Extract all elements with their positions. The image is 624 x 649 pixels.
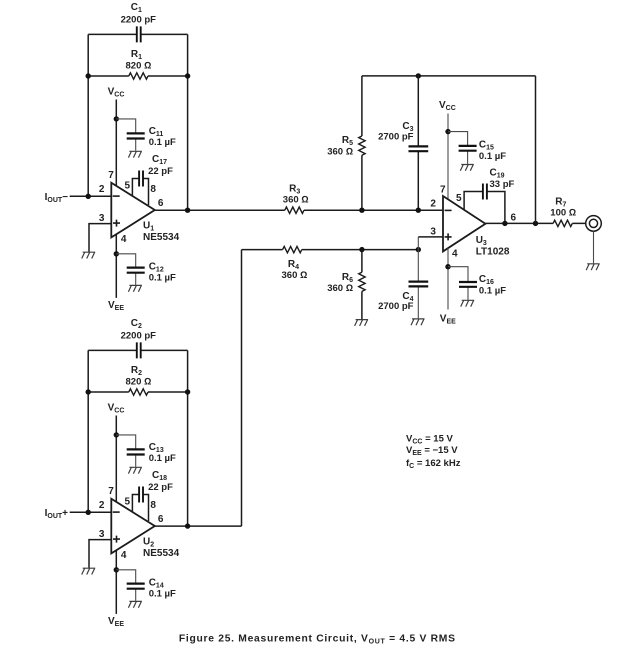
output connector inner ring: [589, 219, 597, 227]
wire: VCC stub to U2 pin 7: [115, 416, 117, 502]
svg-text:22 pF: 22 pF: [148, 166, 173, 177]
junction dot U1 output: [185, 208, 190, 213]
wire: U3 feedback top rail: [362, 75, 536, 77]
wire: C4 branch verticals: [417, 237, 419, 318]
svg-text:0.1 µF: 0.1 µF: [479, 285, 506, 296]
wire: U2 pin 4 / VEE stub: [115, 550, 117, 614]
minus sign U1: [113, 195, 120, 197]
svg-text:360 Ω: 360 Ω: [327, 146, 353, 157]
svg-text:0.1 µF: 0.1 µF: [149, 588, 176, 599]
svg-text:2700 pF: 2700 pF: [378, 132, 414, 143]
junction dot C19 to output: [502, 221, 507, 226]
capacitor C19: [483, 184, 487, 200]
junction dot VCC/C11: [114, 116, 119, 121]
svg-text:4: 4: [121, 550, 127, 561]
svg-text:2700 pF: 2700 pF: [378, 301, 414, 312]
wire: R1 row: [88, 75, 187, 77]
wire: R2 row: [88, 391, 187, 393]
wire: C3 branch verticals: [417, 76, 419, 210]
svg-text:6: 6: [511, 212, 517, 223]
ground U1 pin 3: [82, 252, 96, 258]
svg-text:0.1 µF: 0.1 µF: [149, 453, 176, 464]
ground U2 pin 3: [82, 568, 96, 574]
svg-text:3: 3: [99, 213, 105, 224]
wire: U1 pin 3 to ground: [89, 224, 111, 252]
svg-text:3: 3: [430, 227, 436, 238]
svg-text:2: 2: [430, 199, 436, 210]
plus sign U2: [113, 536, 120, 543]
svg-text:7: 7: [440, 184, 446, 195]
svg-text:360 Ω: 360 Ω: [327, 283, 353, 294]
junction dot input/feedback U2: [86, 510, 91, 515]
svg-text:8: 8: [150, 500, 156, 511]
svg-text:100 Ω: 100 Ω: [550, 208, 576, 219]
ground below C15: [460, 165, 474, 171]
wire: VCC stub to U3 pin 7: [447, 114, 449, 200]
ground below C16: [461, 300, 475, 306]
ground below connector: [586, 264, 600, 270]
wire: U1 output row with R3: [155, 209, 443, 211]
wire: C11 branch: [116, 119, 135, 151]
wire: C16 branch: [448, 267, 468, 300]
wire: IOUT+ input to pin 2: [70, 511, 112, 513]
svg-text:6: 6: [158, 198, 164, 209]
junction dot feedback to output: [533, 221, 538, 226]
junction dot input/feedback: [86, 194, 91, 199]
svg-text:5: 5: [125, 496, 131, 507]
op-amp U3 triangle: [443, 196, 485, 251]
wire: R4 row: [242, 249, 419, 251]
junction dot left R1: [86, 73, 91, 78]
wire: connector ground stem: [593, 231, 595, 263]
capacitor C3: [409, 146, 429, 151]
svg-text:8: 8: [150, 184, 156, 195]
wire: U2 pin5-pin8 bracket: [132, 495, 148, 522]
svg-text:5: 5: [125, 180, 131, 191]
resistor R7: [553, 220, 572, 226]
junction dot pin4/C16: [445, 264, 450, 269]
svg-text:2200 pF: 2200 pF: [121, 14, 157, 25]
junction dot VCC/C13: [114, 432, 119, 437]
junction dot VCC/C15: [445, 129, 450, 134]
wire: C15 branch: [448, 132, 468, 164]
resistor R3: [285, 207, 304, 213]
ground below C4: [411, 319, 425, 325]
wire: U2 pin 3 to ground: [89, 540, 111, 568]
svg-text:LT1028: LT1028: [476, 247, 510, 258]
svg-text:3: 3: [99, 529, 105, 540]
junction dot R5 bottom: [359, 208, 364, 213]
ground below C12: [128, 285, 142, 291]
svg-text:NE5534: NE5534: [143, 232, 180, 243]
wire: U3 output row: [485, 222, 585, 224]
svg-text:6: 6: [158, 514, 164, 525]
svg-text:0.1 µF: 0.1 µF: [479, 151, 506, 162]
svg-text:2: 2: [99, 184, 105, 195]
resistor R6: [359, 272, 365, 291]
minus sign U2: [113, 511, 120, 513]
wire: U3 pin 4 / VEE stub: [447, 248, 449, 309]
wire: R6 branch verticals: [361, 250, 363, 319]
wire: R5 branch verticals: [361, 76, 363, 210]
ground below C11: [128, 151, 142, 157]
svg-text:7: 7: [108, 170, 114, 181]
op-amp U1 triangle: [111, 183, 155, 238]
svg-text:0.1 µF: 0.1 µF: [149, 137, 176, 148]
junction dot U2 output: [185, 523, 190, 528]
capacitor C16: [459, 282, 477, 287]
capacitor C13: [127, 449, 145, 454]
junction dot right R1: [185, 73, 190, 78]
wire: riser from U2 output to R4 row: [241, 250, 243, 526]
capacitor C14: [127, 584, 145, 589]
svg-text:360 Ω: 360 Ω: [283, 195, 309, 206]
wire: C2 top feedback: [88, 349, 187, 351]
capacitor C2: [137, 342, 141, 358]
svg-text:820 Ω: 820 Ω: [126, 60, 152, 71]
junction dot R4/pin3/C4: [416, 247, 421, 252]
ground below C13: [128, 467, 142, 473]
capacitor C4: [409, 282, 429, 287]
op-amp U2 triangle: [111, 499, 155, 554]
wire: feedback right vertical U3: [535, 76, 537, 224]
capacitor C17: [139, 171, 143, 187]
resistor R1: [129, 73, 148, 79]
junction dot top rail / C3: [416, 73, 421, 78]
wire: U1 feedback right vertical: [187, 34, 189, 210]
svg-text:Figure 25. Measurement Circuit: Figure 25. Measurement Circuit, VOUT = 4…: [179, 633, 456, 645]
svg-text:820 Ω: 820 Ω: [126, 376, 152, 387]
ground below C14: [128, 601, 142, 607]
junction dot R6 top: [359, 247, 364, 252]
wire: U2 feedback right vertical: [187, 350, 189, 526]
wire: C12 branch: [116, 254, 135, 285]
junction dot right R2: [185, 389, 190, 394]
wire: U2 feedback left vertical: [87, 350, 89, 512]
wire: IOUT- input to pin 2: [70, 195, 112, 197]
minus sign U3: [445, 209, 452, 211]
wire: C1 top feedback: [88, 33, 187, 35]
junction dot pin4/C14: [114, 567, 119, 572]
wire: U2 output to riser: [155, 525, 242, 527]
svg-text:4: 4: [452, 248, 458, 259]
wire: U1 feedback left vertical: [87, 34, 89, 196]
resistor R4: [283, 246, 302, 252]
ground below R6: [355, 320, 369, 326]
junction dot C3 bottom: [416, 208, 421, 213]
junction dot pin4/C12: [114, 251, 119, 256]
wire: U1 pin 4 / VEE stub: [115, 234, 117, 298]
plus sign U1: [113, 220, 120, 227]
svg-text:2200 pF: 2200 pF: [121, 330, 157, 341]
svg-text:4: 4: [121, 234, 127, 245]
svg-text:33 pF: 33 pF: [490, 179, 515, 190]
svg-text:22 pF: 22 pF: [148, 482, 173, 493]
svg-text:fC = 162 kHz: fC = 162 kHz: [406, 458, 461, 470]
wire: U1 pin5-pin8 bracket: [132, 179, 148, 206]
wire: C13 branch: [116, 435, 135, 467]
wire: VCC stub to U1 pin 7: [115, 100, 117, 186]
svg-text:0.1 µF: 0.1 µF: [149, 272, 176, 283]
capacitor C15: [459, 146, 477, 151]
capacitor C1: [137, 26, 141, 42]
resistor R5: [359, 136, 365, 155]
wire: C14 branch: [116, 570, 135, 601]
resistor R2: [129, 389, 148, 395]
capacitor C18: [139, 487, 143, 503]
wire: U3 pin 3 connection: [418, 236, 443, 238]
svg-text:2: 2: [99, 500, 105, 511]
junction dot left R2: [86, 389, 91, 394]
output connector outer ring: [586, 216, 602, 232]
svg-text:7: 7: [108, 486, 114, 497]
capacitor C11: [127, 133, 145, 138]
wire: U3 pin5-pin8 bracket with C19: [464, 192, 505, 224]
svg-text:NE5534: NE5534: [143, 548, 180, 559]
svg-text:360 Ω: 360 Ω: [282, 270, 308, 281]
capacitor C12: [127, 268, 145, 273]
svg-text:5: 5: [456, 193, 462, 204]
plus sign U3: [445, 233, 452, 240]
